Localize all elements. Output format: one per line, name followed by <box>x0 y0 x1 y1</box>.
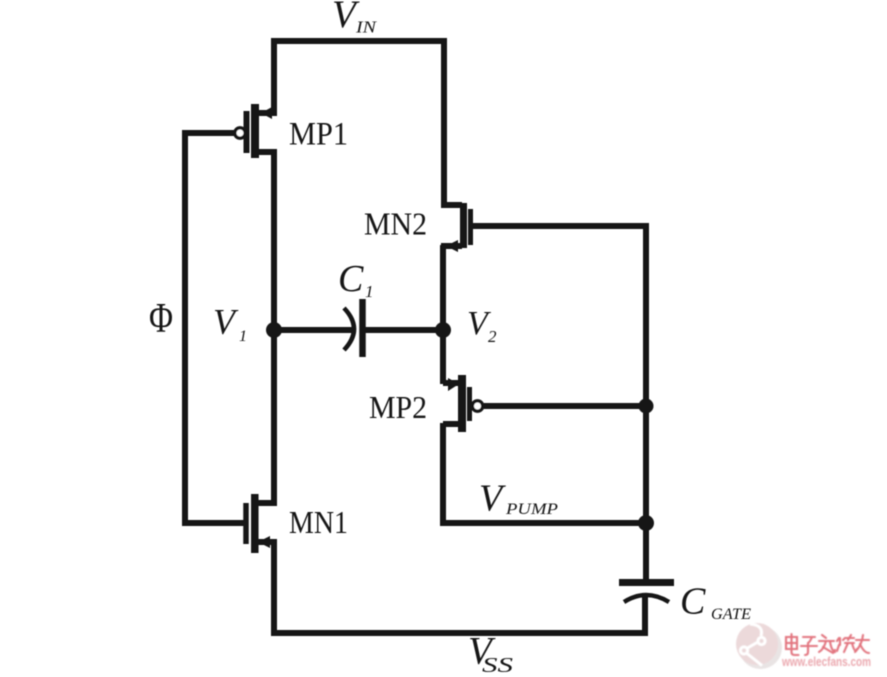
wire MN1 source down <box>271 541 277 634</box>
wire V1 vertical <box>271 151 277 504</box>
label V2 <box>467 305 497 346</box>
label VSS <box>468 630 514 677</box>
junction MP2 gate rail <box>639 399 654 414</box>
wire MP1 gate to phi <box>185 130 234 136</box>
svg-text:PUMP: PUMP <box>505 501 558 518</box>
wire MN2 gate to right rail <box>470 223 649 229</box>
svg-text:SS: SS <box>482 653 514 677</box>
svg-text:C: C <box>338 258 364 300</box>
transistor MN2 <box>441 203 471 252</box>
label V1 <box>213 302 247 346</box>
wire C1 to V2 <box>362 327 443 333</box>
wire V1 to C1 <box>274 327 352 333</box>
wire CGATE bottom lead <box>642 594 648 633</box>
node V2 <box>435 322 451 338</box>
watermark text elecfans <box>781 634 871 669</box>
svg-text:2: 2 <box>488 327 497 346</box>
wire right rail <box>643 223 649 580</box>
wire VPUMP <box>440 520 649 526</box>
label C1 <box>338 258 374 301</box>
svg-text:Φ: Φ <box>149 296 173 342</box>
svg-text:C: C <box>680 581 706 623</box>
svg-text:V: V <box>479 478 506 520</box>
wire MN2 source to MP2 source via V2 <box>440 245 446 384</box>
svg-text:IN: IN <box>355 18 378 37</box>
svg-text:MN2: MN2 <box>364 206 427 242</box>
svg-text:MP2: MP2 <box>369 389 427 425</box>
wire phi line <box>182 130 188 524</box>
wire MP2 drain down <box>440 423 446 524</box>
wire VIN top <box>271 38 447 44</box>
svg-text:V: V <box>213 302 239 342</box>
wire VSS bottom <box>271 630 648 636</box>
junction VPUMP rail <box>638 515 654 531</box>
label VPUMP <box>479 478 558 520</box>
svg-text:MN1: MN1 <box>289 504 348 540</box>
svg-text:1: 1 <box>239 328 247 345</box>
svg-text:GATE: GATE <box>711 606 751 623</box>
transistor MN1 <box>246 494 277 553</box>
wire VIN left drop <box>271 38 277 113</box>
wire MP2 gate to rail <box>481 403 646 409</box>
net VIN label <box>332 0 378 37</box>
svg-text:www.elecfans.com: www.elecfans.com <box>781 654 871 669</box>
watermark logo elecfans <box>736 623 782 669</box>
label CGATE <box>680 581 751 624</box>
node V1 <box>266 322 282 338</box>
capacitor C1 <box>344 299 363 357</box>
transistor MP2 <box>443 375 483 432</box>
svg-text:1: 1 <box>365 282 374 301</box>
svg-text:MP1: MP1 <box>289 117 348 153</box>
wire VIN right drop <box>441 38 447 206</box>
capacitor CGATE <box>619 583 674 603</box>
wire MN1 gate to phi <box>182 520 244 526</box>
transistor MP1 <box>235 104 277 158</box>
